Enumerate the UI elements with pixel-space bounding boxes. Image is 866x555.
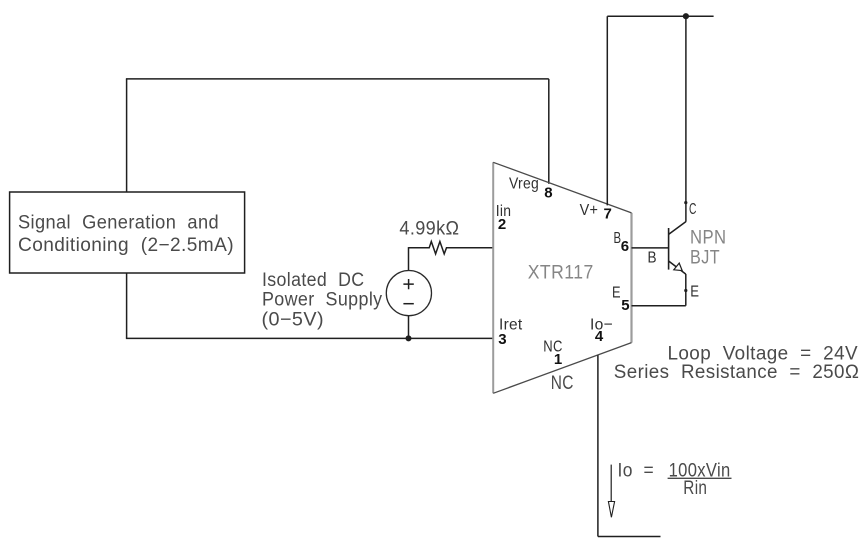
resistor wire and zigzag: [409, 242, 494, 254]
current arrowhead: [608, 502, 614, 518]
svg-text:XTR117: XTR117: [528, 263, 594, 284]
junction dot bottom bus: [406, 335, 412, 341]
plus sign: [403, 279, 413, 289]
XTR117 U1 trapezoid left edge: [492, 162, 494, 393]
wire box top vertical: [126, 79, 128, 192]
svg-text:8: 8: [544, 185, 552, 202]
wire V+ vertical: [606, 16, 608, 205]
transistor Q1 base bar: [668, 228, 670, 270]
wire top right horizontal: [607, 15, 713, 17]
svg-text:E: E: [612, 284, 621, 301]
wire bottom bus to Iret pin3: [126, 337, 493, 339]
svg-text:C: C: [689, 201, 697, 218]
svg-text:E: E: [690, 283, 699, 300]
svg-text:3: 3: [498, 331, 506, 348]
svg-text:Vreg: Vreg: [509, 176, 539, 193]
svg-text:7: 7: [604, 206, 612, 223]
svg-text:NPN: NPN: [690, 228, 727, 249]
current arrow Io: [610, 465, 612, 501]
wire emitter to pin5: [632, 305, 686, 307]
svg-text:Rin: Rin: [683, 478, 707, 499]
transistor Q1 collector diagonal: [669, 222, 686, 235]
svg-text:V+: V+: [580, 202, 599, 219]
wire base pin6: [632, 247, 669, 249]
svg-text:Power Supply: Power Supply: [262, 290, 383, 311]
svg-text:B: B: [648, 250, 657, 267]
transistor Q1 emitter diagonal: [669, 261, 686, 274]
svg-text:2: 2: [498, 216, 506, 233]
wire emitter vertical: [685, 274, 687, 306]
XTR117 U1 trapezoid bottom slant edge: [493, 343, 631, 394]
wire top horizontal: [126, 78, 549, 80]
wire Io- vertical: [597, 355, 599, 536]
wire resistor corner down to supply: [408, 247, 410, 271]
svg-text:Signal Generation and: Signal Generation and: [18, 212, 219, 233]
svg-text:1: 1: [554, 351, 562, 368]
svg-text:4: 4: [595, 328, 604, 345]
wire box bottom vertical: [126, 273, 128, 338]
svg-text:Conditioning (2−2.5mA): Conditioning (2−2.5mA): [18, 235, 234, 256]
wire Vreg drop: [548, 79, 550, 184]
svg-text:Io =: Io =: [618, 460, 655, 481]
svg-text:Isolated DC: Isolated DC: [262, 270, 365, 291]
node E dot: [684, 289, 687, 292]
junction dot top right: [683, 13, 689, 19]
XTR117 U1 trapezoid top slant edge: [493, 162, 631, 213]
power supply source V1 circle: [386, 271, 431, 316]
wire collector vertical: [685, 16, 687, 222]
wire supply bottom: [408, 316, 410, 339]
wire bottom right horizontal: [598, 536, 661, 538]
svg-text:BJT: BJT: [690, 248, 720, 269]
svg-text:NC: NC: [551, 373, 574, 394]
transistor Q1 emitter arrowhead: [674, 263, 682, 271]
svg-text:5: 5: [621, 297, 629, 314]
signal generation box: [10, 192, 245, 273]
XTR117 U1 trapezoid right edge: [630, 213, 632, 343]
svg-text:Series Resistance = 250Ω: Series Resistance = 250Ω: [614, 362, 860, 383]
svg-text:4.99kΩ: 4.99kΩ: [399, 219, 459, 240]
svg-text:6: 6: [621, 238, 629, 255]
node C dot: [684, 201, 687, 204]
fraction bar: [668, 477, 732, 479]
svg-text:(0−5V): (0−5V): [262, 310, 325, 331]
minus sign: [403, 303, 413, 305]
